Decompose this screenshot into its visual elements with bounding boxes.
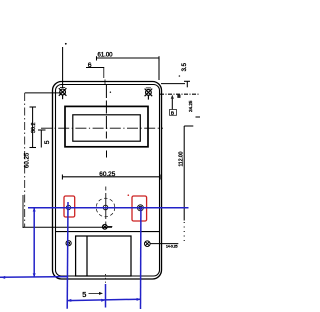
svg-text:5: 5 <box>82 290 86 299</box>
svg-text:6: 6 <box>88 62 92 69</box>
svg-text:61.00: 61.00 <box>98 53 114 59</box>
svg-text:112.00: 112.00 <box>179 151 185 166</box>
svg-text:30.2: 30.2 <box>31 123 37 134</box>
svg-text:B: B <box>171 110 174 116</box>
svg-text:24.25: 24.25 <box>188 100 193 112</box>
svg-text:14-0.25: 14-0.25 <box>166 245 178 249</box>
svg-text:60.25: 60.25 <box>99 171 115 178</box>
svg-text:5: 5 <box>44 140 51 144</box>
svg-text:60.25: 60.25 <box>23 152 30 168</box>
svg-text:3.5: 3.5 <box>182 62 188 71</box>
